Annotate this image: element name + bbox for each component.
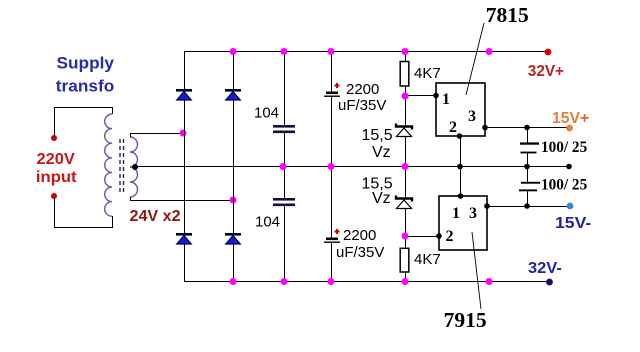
svg-text:100/ 25: 100/ 25: [541, 177, 587, 194]
svg-text:uF/35V: uF/35V: [336, 244, 384, 261]
resistor R1 4K7: [400, 62, 409, 87]
wire resistor column upper: [405, 51, 407, 166]
node bottom rail dots: [230, 278, 493, 285]
svg-text:transfo: transfo: [56, 77, 115, 96]
wire output cap column: [527, 128, 529, 207]
wire bottom rail: [184, 281, 549, 283]
node below R1: [402, 93, 409, 100]
polarity plus C4: [335, 229, 340, 234]
node top pin U2: [458, 193, 464, 199]
transformer T1 core: [120, 139, 124, 192]
svg-text:100/ 25: 100/ 25: [541, 139, 587, 156]
node pin1 U1: [433, 93, 439, 99]
node pin3 U2: [484, 203, 490, 209]
svg-text:2200: 2200: [343, 227, 376, 244]
svg-text:4K7: 4K7: [414, 65, 441, 82]
transformer T1 secondary winding lower: [130, 167, 138, 197]
label: 15,5 Vz upper: [362, 127, 393, 161]
wire pin3 U1 to 15V+: [485, 127, 570, 129]
svg-text:Supply: Supply: [57, 54, 115, 73]
capacitor C2 104: [273, 198, 295, 206]
node ground rail at 460: [457, 164, 463, 170]
node ground rail end: [566, 164, 572, 170]
svg-text:15,5: 15,5: [362, 127, 393, 144]
wire capacitor column 2200 lower: [331, 166, 333, 281]
terminal 220V bottom: [51, 193, 57, 199]
wire center tap / ground rail: [133, 166, 569, 168]
wire bridge right column: [233, 51, 235, 281]
svg-text:220V: 220V: [37, 151, 76, 168]
diode D3: [176, 233, 192, 244]
svg-text:uF/35V: uF/35V: [338, 97, 386, 114]
wire pin1 U1: [405, 95, 436, 97]
zener ZD1 15,5Vz: [396, 124, 412, 137]
leader line 7815: [466, 23, 484, 95]
node pin2 U1: [457, 133, 463, 139]
svg-text:2: 2: [446, 228, 454, 245]
wire pin2 U2: [405, 236, 439, 238]
wire bridge left column: [184, 51, 186, 281]
svg-text:Vz: Vz: [372, 144, 391, 161]
capacitor C4 2200uF: [324, 238, 340, 243]
label: 2200 uF/35V lower: [336, 227, 384, 261]
wire capacitor column 104 upper: [284, 51, 286, 166]
capacitor C1 104: [273, 125, 295, 133]
svg-text:24V x2: 24V x2: [130, 208, 181, 225]
svg-text:7915: 7915: [444, 308, 487, 332]
wire pin3 U2 to 15V-: [487, 206, 570, 208]
transformer T1 primary winding: [105, 114, 112, 216]
svg-text:4K7: 4K7: [414, 251, 441, 268]
wire primary bottom: [55, 196, 113, 228]
svg-text:104: 104: [254, 105, 279, 122]
op-amp U2 regulator 7915 box: [439, 196, 487, 250]
capacitor C3 2200uF: [324, 92, 340, 97]
node zener R2 junction: [402, 233, 409, 240]
node pin2 U2: [436, 233, 442, 239]
terminal 32V+: [545, 49, 552, 56]
svg-text:1: 1: [442, 91, 450, 108]
svg-text:32V-: 32V-: [528, 260, 562, 277]
transformer T1 secondary winding upper: [130, 137, 138, 167]
diode D1: [176, 89, 192, 100]
label: 2200 uF/35V upper: [338, 81, 386, 114]
node secondary top junction: [180, 130, 187, 137]
wire secondary bottom to bridge: [131, 197, 234, 201]
op-amp U1 regulator 7815 box: [436, 83, 485, 136]
capacitor C5 100/25: [520, 142, 539, 153]
node center tap: [132, 164, 138, 170]
svg-text:7815: 7815: [486, 3, 529, 27]
zener ZD2 15,5Vz: [396, 196, 412, 209]
label: 220V input: [36, 151, 77, 186]
label: Supply transfo: [56, 54, 115, 96]
svg-text:2: 2: [449, 119, 457, 136]
svg-text:3: 3: [469, 205, 477, 222]
terminal 15V+: [566, 125, 573, 132]
diode D2: [225, 89, 241, 100]
svg-text:1: 1: [452, 205, 460, 222]
wire primary top: [55, 108, 113, 139]
wire pin2 U1 down to ground rail and U2: [460, 136, 462, 196]
diode D4: [225, 233, 241, 244]
resistor R2 4K7: [400, 248, 409, 272]
node pin3 U1: [482, 125, 488, 131]
terminal 32V-: [546, 279, 553, 286]
node ground rail dots: [280, 163, 409, 170]
svg-text:32V+: 32V+: [528, 63, 564, 80]
capacitor C6 100/25: [519, 182, 540, 191]
label: 15,5 Vz lower: [362, 176, 393, 208]
node ground cap junction: [524, 164, 530, 170]
wire capacitor column 104 lower: [284, 166, 286, 281]
wire capacitor column 2200 upper: [331, 51, 333, 166]
node top rail dots: [230, 48, 493, 55]
terminal 15V-: [567, 203, 574, 210]
wire secondary top to bridge: [131, 134, 184, 138]
node 15V- cap junction: [524, 203, 530, 209]
svg-text:2200: 2200: [346, 81, 379, 98]
wire resistor column lower: [405, 166, 407, 281]
terminal 220V top: [51, 135, 57, 141]
svg-text:104: 104: [255, 214, 280, 231]
leader line 7915: [472, 232, 481, 309]
svg-text:15V-: 15V-: [555, 215, 591, 232]
node 15V+ cap junction: [524, 125, 530, 131]
svg-text:input: input: [36, 169, 77, 186]
node secondary bottom junction: [230, 197, 237, 204]
wire top rail: [184, 51, 548, 53]
svg-text:15V+: 15V+: [552, 110, 589, 127]
polarity plus C3: [335, 83, 340, 88]
svg-text:3: 3: [468, 108, 476, 125]
svg-text:Vz: Vz: [372, 190, 391, 207]
